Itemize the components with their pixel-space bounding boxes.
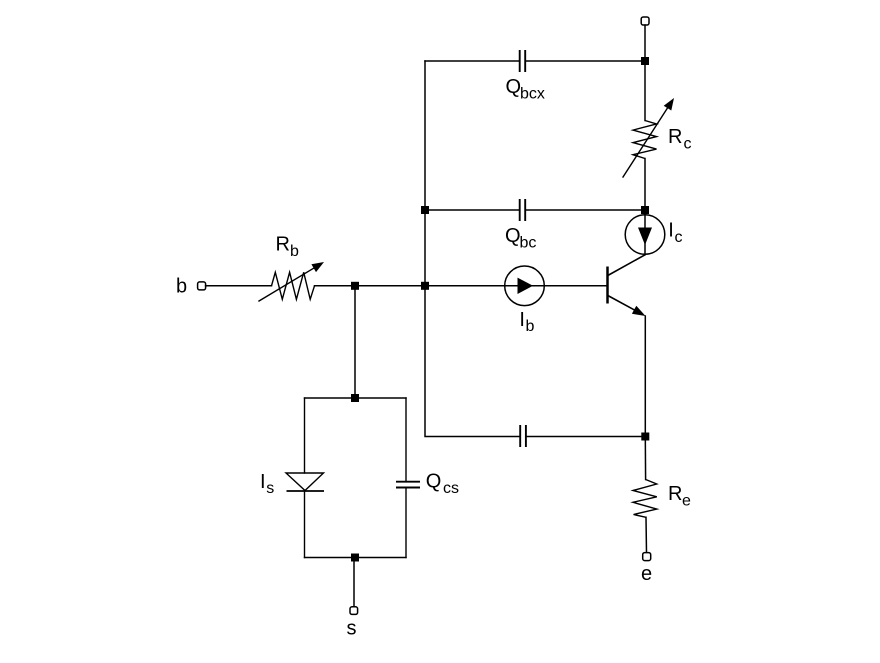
label Ib <box>519 309 534 335</box>
svg-text:e: e <box>682 493 691 510</box>
wire emitter down <box>644 316 646 437</box>
wire substrate node to terminal s <box>353 558 355 607</box>
svg-text:c: c <box>684 136 692 153</box>
svg-text:bcx: bcx <box>520 86 545 103</box>
svg-text:R: R <box>668 126 682 148</box>
transistor Q1 <box>608 255 646 316</box>
node emitter <box>641 433 649 441</box>
wire node to Rc <box>644 61 646 121</box>
capacitor Qcs <box>396 482 420 488</box>
wire node to Re <box>644 437 646 480</box>
wire through Ib to transistor base <box>505 285 607 287</box>
label Rb <box>276 234 300 261</box>
wire node A down to substrate box <box>354 286 356 398</box>
svg-text:cs: cs <box>443 480 459 497</box>
label Re <box>668 483 691 510</box>
substrate box right wire upper <box>405 398 407 481</box>
wire Re to terminal e <box>645 517 648 552</box>
svg-text:I: I <box>668 220 674 242</box>
svg-text:b: b <box>176 276 187 298</box>
svg-text:R: R <box>276 234 290 256</box>
resistor Rb (variable) <box>259 262 324 301</box>
terminal b <box>198 282 206 290</box>
substrate box left wire lower <box>304 492 306 558</box>
terminal c (top) <box>641 17 649 25</box>
svg-text:I: I <box>260 471 266 493</box>
node substrate bottom <box>351 554 359 562</box>
substrate box top wire <box>305 397 407 399</box>
svg-text:c: c <box>675 229 683 246</box>
wire top terminal to node <box>644 25 646 61</box>
svg-text:b: b <box>526 318 535 335</box>
wire base rail to Ib <box>425 285 505 287</box>
wire bottom row right <box>527 436 646 438</box>
svg-text:Q: Q <box>505 225 521 247</box>
current source Ib <box>505 266 545 306</box>
svg-text:I: I <box>519 309 525 331</box>
svg-text:R: R <box>668 483 682 505</box>
node b-internal <box>351 282 359 290</box>
node base rail <box>421 282 429 290</box>
node Qbc left <box>421 206 429 214</box>
svg-text:b: b <box>290 243 299 260</box>
wire top row left <box>425 60 519 62</box>
label Rc <box>668 126 692 153</box>
current source Ic <box>625 215 665 255</box>
terminal s <box>350 607 358 615</box>
label Ic <box>668 220 682 246</box>
wire top row right <box>526 60 645 62</box>
wire Rb to node <box>315 285 356 287</box>
svg-text:s: s <box>347 618 357 640</box>
label Qbc <box>505 225 536 252</box>
label Qbcx <box>506 76 545 103</box>
substrate box bottom wire <box>305 557 407 559</box>
wire node to base rail <box>355 285 425 287</box>
capacitor Qbcx <box>520 50 526 72</box>
label Is <box>260 471 274 497</box>
svg-text:Q: Q <box>506 76 522 98</box>
label Qcs <box>426 471 459 498</box>
node Qbc right <box>641 206 649 214</box>
wire left rail lower <box>425 286 520 437</box>
svg-text:e: e <box>641 563 652 585</box>
wire Qbc row right <box>526 209 645 211</box>
terminal e <box>643 553 651 561</box>
substrate box left wire upper <box>304 398 306 473</box>
wire left rail <box>424 61 426 286</box>
svg-text:Q: Q <box>426 471 442 493</box>
svg-text:s: s <box>266 480 274 497</box>
wire Qbc row left <box>425 209 519 211</box>
svg-text:bc: bc <box>520 235 537 252</box>
resistor Re <box>633 480 657 518</box>
diode Is <box>286 473 324 491</box>
wire Rc to node <box>644 159 646 211</box>
wire b terminal to Rb <box>206 285 272 287</box>
node collector top <box>641 57 649 65</box>
node substrate top <box>351 394 359 402</box>
capacitor Qbc <box>520 199 526 221</box>
resistor Rc (variable) <box>623 98 674 177</box>
wire node to Ic <box>644 210 646 255</box>
substrate box right wire lower <box>405 488 407 558</box>
capacitor Qbe (bottom row) <box>520 425 526 447</box>
